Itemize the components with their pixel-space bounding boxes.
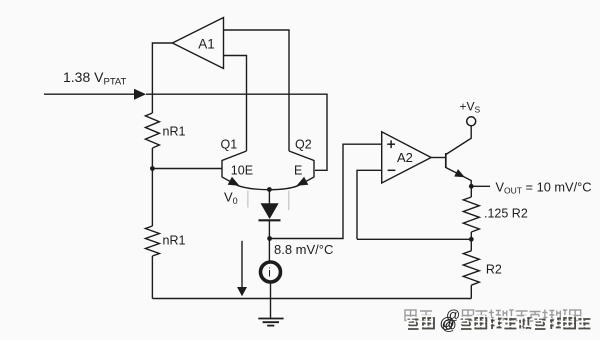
current direction arrow [241, 241, 243, 288]
wire: node to diode [268, 190, 270, 204]
wire: A2 output to Q3 base [431, 157, 446, 159]
svg-text:Q1: Q1 [221, 138, 238, 152]
svg-text:nR1: nR1 [163, 234, 186, 248]
wire: diode to current source [268, 220, 270, 262]
transistor Q2 emitter arrow [297, 177, 309, 186]
svg-text:10E: 10E [231, 164, 253, 178]
diode D1 [261, 203, 279, 219]
transistor Q1 body [222, 151, 247, 186]
terminal +VS [467, 117, 476, 126]
A2 minus sign [388, 169, 396, 171]
wire: A1 output to left rail [152, 43, 172, 113]
wire: left rail bottom [151, 256, 153, 299]
resistor nR1 lower [145, 226, 159, 256]
svg-text:E: E [294, 164, 302, 178]
wire: between resistors [470, 232, 472, 251]
wire: CS to ground [270, 282, 272, 319]
svg-text:i: i [268, 267, 271, 279]
A2 plus sign [387, 140, 395, 170]
wire: main rail to Q2 base [146, 94, 327, 170]
transistor Q3 base bar [445, 153, 447, 168]
node: feedback tap [469, 237, 474, 242]
node: VOUT [469, 184, 474, 189]
wire: A2 - input feedback [357, 170, 382, 239]
svg-text:.125 R2: .125 R2 [484, 207, 528, 221]
op-amp A2 [382, 132, 431, 183]
current source CS [261, 262, 281, 282]
stub line under Q1 [247, 191, 249, 208]
wire: bottom rail [152, 298, 471, 300]
transistor Q3 collector [446, 126, 471, 155]
resistor nR1 upper [145, 113, 159, 148]
node: 8.8mV tap [267, 236, 272, 241]
transistor Q2 body [289, 151, 314, 186]
wire: A1 top input to Q2 collector [224, 30, 290, 151]
watermark toutiao shadow layer [408, 318, 591, 330]
wire: Q2 emitter to common node [269, 186, 298, 190]
watermark toutiao white layer [406, 316, 589, 328]
svg-text:8.8 mV/°C: 8.8 mV/°C [274, 242, 333, 257]
op-amp A1 [172, 18, 223, 69]
transistor Q3 emitter [446, 168, 471, 185]
Q3 emitter arrow [454, 169, 465, 177]
resistor R2 [463, 251, 479, 285]
svg-text:nR1: nR1 [163, 125, 186, 139]
wire: Q1 base lead [152, 168, 222, 170]
wire: input line 1.38 VPTAT [44, 93, 140, 95]
wire: left rail middle [151, 148, 153, 226]
svg-text:R2: R2 [486, 263, 502, 277]
watermark zhihu gray layer [405, 310, 581, 322]
input arrowhead [134, 89, 146, 100]
wire: Q1 emitter to common node [238, 186, 269, 190]
wire: feedback from R2 tap [357, 238, 471, 240]
svg-text:A1: A1 [198, 37, 215, 52]
resistor .125 R2 [463, 197, 479, 232]
transistor Q1 emitter arrow [228, 177, 240, 186]
wire: node to A2 + input [270, 144, 382, 238]
stub line under Q2 [288, 191, 290, 211]
svg-text:Q2: Q2 [295, 138, 312, 152]
svg-text:A2: A2 [397, 150, 413, 165]
node: common emitter [267, 187, 272, 192]
ground [258, 319, 283, 326]
wire: VOUT lead [471, 185, 490, 187]
svg-text:@: @ [440, 315, 455, 332]
node: Q1 base tap [150, 166, 155, 171]
wire: R2 to bottom rail [470, 285, 472, 298]
wire: A1 bottom input to Q1 collector [224, 56, 247, 152]
wire: emitter node to .125R2 [470, 186, 472, 197]
